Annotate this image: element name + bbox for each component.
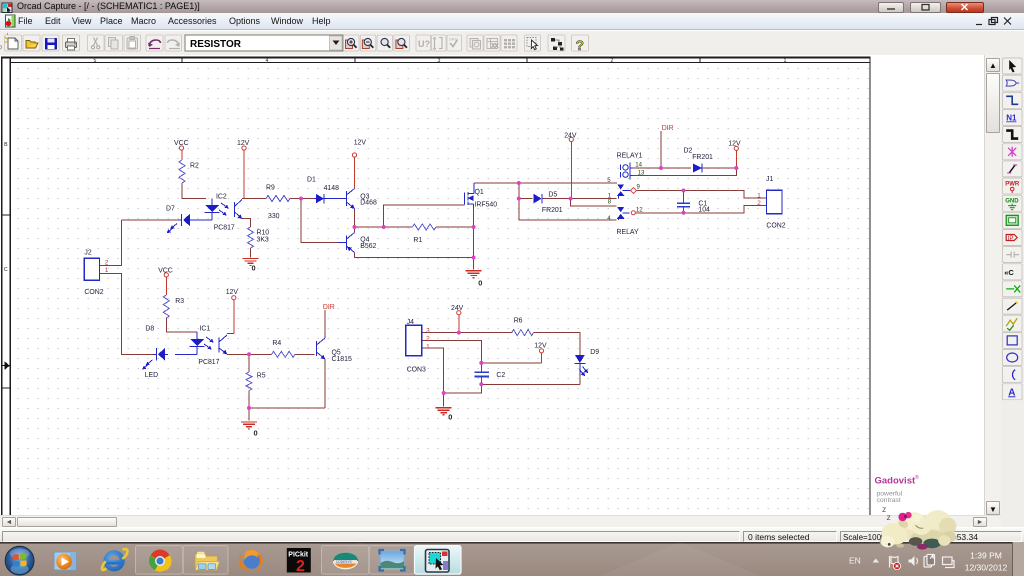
svg-text:330: 330 — [268, 213, 280, 220]
svg-text:R2: R2 — [190, 163, 199, 170]
svg-text:R5: R5 — [257, 372, 266, 379]
svg-text:1: 1 — [426, 344, 430, 351]
svg-text:Gadovist: Gadovist — [875, 476, 916, 487]
svg-text:CON2: CON2 — [766, 222, 785, 229]
svg-text:C: C — [4, 267, 8, 273]
svg-text:5: 5 — [94, 58, 97, 64]
svg-text:C2: C2 — [496, 372, 505, 379]
svg-text:4148: 4148 — [324, 185, 339, 192]
svg-text:CODESYS: CODESYS — [336, 560, 352, 564]
svg-text:D7: D7 — [166, 206, 175, 213]
svg-text:0: 0 — [448, 413, 452, 422]
svg-text:FR201: FR201 — [542, 207, 563, 214]
svg-text:IRF540: IRF540 — [475, 202, 498, 209]
svg-text:3: 3 — [438, 58, 441, 64]
svg-text:Q1: Q1 — [475, 189, 484, 196]
svg-text:VCC: VCC — [174, 140, 189, 147]
svg-text:0: 0 — [478, 279, 482, 288]
svg-text:IC2: IC2 — [216, 194, 227, 201]
svg-text:FR201: FR201 — [692, 154, 713, 161]
svg-text:12V: 12V — [728, 141, 741, 148]
svg-text:J4: J4 — [407, 319, 414, 326]
svg-text:13: 13 — [638, 169, 645, 176]
svg-text:12V: 12V — [354, 140, 367, 147]
svg-text:D468: D468 — [360, 200, 377, 207]
svg-text:J1: J1 — [766, 176, 773, 183]
svg-text:D5: D5 — [548, 192, 557, 199]
svg-text:RESISTOR: RESISTOR — [190, 39, 242, 50]
svg-text:R1: R1 — [413, 237, 422, 244]
svg-text:contrast: contrast — [877, 497, 901, 504]
svg-text:R9: R9 — [266, 185, 275, 192]
svg-text:1: 1 — [105, 267, 109, 274]
svg-text:D8: D8 — [145, 326, 154, 333]
svg-text:1: 1 — [757, 192, 761, 199]
svg-text:RELAY: RELAY — [617, 229, 639, 236]
svg-text:2: 2 — [757, 200, 761, 207]
svg-text:8: 8 — [608, 199, 612, 206]
svg-text:B: B — [4, 142, 8, 148]
svg-text:C1815: C1815 — [332, 356, 352, 363]
svg-text:PC817: PC817 — [214, 225, 235, 232]
svg-text:24V: 24V — [564, 133, 577, 140]
svg-text:12V: 12V — [237, 140, 250, 147]
svg-text:z: z — [887, 512, 891, 522]
svg-text:4: 4 — [266, 58, 269, 64]
svg-text:12V: 12V — [226, 289, 239, 296]
svg-text:R6: R6 — [514, 318, 523, 325]
svg-text:2: 2 — [105, 259, 109, 266]
svg-text:DIR: DIR — [662, 125, 674, 132]
svg-text:LED: LED — [145, 372, 158, 379]
svg-text:CON2: CON2 — [84, 289, 103, 296]
svg-text:DIR: DIR — [323, 304, 335, 311]
svg-text:5: 5 — [607, 177, 611, 184]
svg-text:12V: 12V — [534, 342, 547, 349]
svg-text:CON3: CON3 — [407, 366, 426, 373]
svg-text:3K3: 3K3 — [257, 236, 269, 243]
svg-text:R4: R4 — [272, 340, 281, 347]
svg-text:RELAY1: RELAY1 — [617, 153, 643, 160]
svg-text:EN: EN — [849, 556, 861, 566]
svg-text:IP: IP — [1008, 236, 1014, 242]
svg-text:2: 2 — [296, 558, 305, 575]
svg-text:1: 1 — [784, 58, 787, 64]
svg-text:D2: D2 — [684, 148, 693, 155]
svg-text:R3: R3 — [175, 298, 184, 305]
svg-text:J2: J2 — [84, 250, 91, 257]
svg-text:12: 12 — [636, 206, 643, 213]
svg-text:3: 3 — [426, 327, 430, 334]
svg-text:PC817: PC817 — [198, 359, 219, 366]
svg-text:U?: U? — [418, 39, 430, 49]
svg-text:D1: D1 — [307, 177, 316, 184]
svg-text:B562: B562 — [360, 243, 376, 250]
svg-text:2: 2 — [426, 335, 430, 342]
svg-text:2: 2 — [611, 58, 614, 64]
svg-text:«C: «C — [1004, 268, 1014, 277]
svg-text:DRC: DRC — [449, 37, 458, 42]
svg-text:4: 4 — [607, 215, 611, 222]
svg-text:PWR: PWR — [1005, 182, 1020, 188]
svg-text:D9: D9 — [590, 349, 599, 356]
svg-text:N1: N1 — [1006, 113, 1017, 122]
svg-text:0: 0 — [252, 264, 256, 273]
svg-text:XX: XX — [492, 44, 499, 50]
svg-text:14: 14 — [635, 162, 642, 169]
svg-text:24V: 24V — [451, 305, 464, 312]
svg-text:®: ® — [915, 474, 919, 481]
svg-text:VCC: VCC — [158, 268, 173, 275]
svg-text:0: 0 — [254, 429, 258, 438]
svg-text:A: A — [1008, 387, 1015, 398]
svg-text:104: 104 — [698, 207, 710, 214]
svg-text:12/30/2012: 12/30/2012 — [965, 563, 1008, 573]
svg-text:?: ? — [576, 37, 585, 53]
svg-text:IC1: IC1 — [200, 326, 211, 333]
